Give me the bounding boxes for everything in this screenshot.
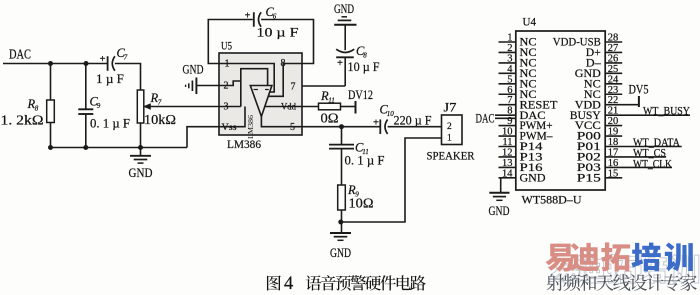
U4 pin 18 (P01) [577, 137, 682, 153]
svg-text:0. 1 µ F: 0. 1 µ F [90, 116, 130, 131]
svg-text:26: 26 [608, 53, 619, 64]
U4 pin 15 (P15) [577, 168, 622, 184]
U4 pin 2 (NC) [499, 43, 537, 59]
svg-text:20: 20 [608, 116, 619, 127]
svg-text:10 µ F: 10 µ F [348, 59, 380, 74]
capacitor C10 label [380, 103, 395, 119]
svg-text:+: + [337, 58, 343, 69]
svg-text:4: 4 [284, 274, 293, 294]
svg-text:7: 7 [507, 95, 512, 106]
svg-text:J7: J7 [444, 101, 457, 115]
U5 pin 5 number [290, 122, 295, 133]
svg-text:+: + [373, 118, 379, 129]
wire R9 bottom to J7 pin 1 [341, 138, 442, 222]
svg-text:GND: GND [489, 203, 510, 218]
svg-text:5: 5 [507, 74, 512, 85]
svg-text:GND: GND [334, 1, 354, 16]
U4 pin 27 (D+) [586, 43, 622, 59]
svg-text:U5: U5 [221, 39, 232, 53]
svg-text:1. 2kΩ: 1. 2kΩ [1, 113, 44, 128]
svg-text:GND: GND [330, 245, 351, 260]
U4 pin 17 (P02) [577, 147, 666, 163]
svg-text:1: 1 [507, 33, 512, 44]
net label WT_CS [633, 148, 666, 160]
resistor R11 body [319, 103, 341, 110]
wire DAC net horizontal segment (to C7 left plate) [3, 63, 108, 65]
junction dot R7 bottom / GND tap [138, 145, 143, 150]
svg-text:GND: GND [520, 172, 546, 184]
capacitor C8 (polarized, + bottom) [336, 49, 354, 69]
svg-text:7: 7 [124, 54, 128, 62]
U5 internal wire from pin 2 [219, 81, 241, 86]
svg-text:6: 6 [507, 85, 512, 96]
svg-text:7: 7 [291, 82, 296, 93]
svg-text:9: 9 [507, 116, 512, 127]
svg-text:1 µ F: 1 µ F [96, 71, 124, 86]
op-amp U5 internal triangle [250, 86, 272, 117]
svg-text:8: 8 [35, 105, 39, 113]
op-amp U5 vertical LM386 text [246, 115, 255, 139]
svg-text:0Ω: 0Ω [321, 111, 339, 126]
svg-text:18: 18 [608, 137, 619, 148]
junction dot at R8 top [48, 61, 53, 66]
capacitor C10 value 220 uF [394, 113, 432, 128]
U4 pin 24 (NC) [584, 74, 622, 90]
op-amp U5 box [219, 53, 302, 135]
U4 pin 21 (BUSY) [570, 106, 690, 122]
U5 internal Vdd wire [265, 106, 302, 108]
svg-text:15: 15 [608, 168, 619, 179]
U4 pin 23 (NC) [584, 85, 622, 101]
svg-text:DAC: DAC [476, 112, 495, 126]
power DV5 terminal [629, 83, 649, 108]
U4 pin 14 (GND) [499, 168, 546, 184]
U4 pin 26 (D–) [586, 53, 622, 69]
U5 pin 8 number [281, 58, 286, 69]
node DAC (at U4 pin 8) [476, 112, 516, 126]
U4 pin 19 (P00) [577, 127, 622, 143]
wire rail to U5 Vss [187, 127, 219, 148]
ground GND (below R9) [330, 222, 351, 260]
svg-text:22: 22 [608, 95, 619, 106]
U4 pin 22 (VDD) [575, 95, 639, 111]
wire C6 loop left side [208, 20, 253, 64]
U4 pin 10 (PWM–) [499, 127, 553, 143]
U5 internal output wire to pin 5 [261, 117, 302, 127]
svg-text:10 µ F: 10 µ F [257, 25, 299, 40]
caption 图4 语音预警硬件电路 [267, 274, 426, 294]
U5 pin 7 number [291, 82, 296, 93]
U5 internal wire from pin 8 [268, 64, 302, 97]
U4 pin 11 (P14) [499, 137, 543, 153]
svg-text:21: 21 [608, 106, 619, 117]
U5 internal feedback rect top [241, 69, 268, 107]
capacitor C11 value 0.1 uF [345, 153, 385, 168]
svg-text:SPEAKER: SPEAKER [427, 149, 475, 163]
svg-text:GND: GND [129, 165, 153, 180]
U5 pin 1 number [225, 59, 230, 70]
junction dot C9 bottom [83, 145, 88, 150]
op-amp U5 part label LM386 [227, 137, 261, 151]
U5 internal wire from Vss [219, 107, 245, 127]
svg-text:WT588D–U: WT588D–U [522, 193, 582, 207]
wire GND to C8 [344, 25, 346, 50]
op-amp U5 refdes label [221, 39, 232, 53]
capacitor C8 value 10 uF [348, 59, 380, 74]
resistor R11 value 0 ohm [321, 111, 339, 126]
ground GND at U5 pin 2 (rotated) [183, 62, 220, 95]
watermark 易迪拓培训 / 射频和天线设计专家 [545, 242, 698, 291]
resistor R8 value 1.2k ohm [1, 113, 44, 128]
svg-text:8: 8 [507, 106, 512, 117]
IC U4 refdes label [523, 15, 537, 29]
svg-text:4: 4 [507, 64, 513, 75]
svg-text:23: 23 [608, 85, 619, 96]
capacitor C11 label [355, 141, 369, 157]
connector J7 SPEAKER label [427, 149, 475, 163]
svg-text:DV5: DV5 [629, 83, 649, 97]
svg-text:2: 2 [507, 43, 512, 54]
resistor R9 body [338, 185, 346, 222]
ground GND (top, inverted) [334, 1, 357, 25]
resistor R9 label [347, 183, 359, 199]
net label WT_BUSY [643, 106, 691, 118]
U4 pin 25 (GND) [575, 64, 622, 80]
svg-text:24: 24 [608, 74, 619, 85]
U5 internal wire from pin 1 [219, 64, 274, 93]
capacitor C7 value 1 uF [96, 71, 124, 86]
power DV12 terminal [355, 101, 357, 114]
U4 pin 3 (NC) [499, 53, 537, 69]
svg-text:DV12: DV12 [348, 87, 373, 102]
U4 pin 7 (RESET) [499, 95, 558, 111]
capacitor C6 value 10 uF [257, 25, 299, 40]
U4 pin 13 (P16) [499, 158, 543, 174]
svg-text:220 µ F: 220 µ F [394, 113, 432, 128]
svg-text:11: 11 [328, 97, 334, 105]
U4 pin 4 (NC) [499, 64, 537, 80]
svg-text:9: 9 [97, 102, 101, 110]
wire C8 to U5 pin 7 [302, 57, 345, 86]
svg-text:+: + [100, 54, 106, 65]
potentiometer R7 label [150, 91, 162, 107]
U4 pin 5 (NC) [499, 74, 537, 90]
resistor R8 label [27, 97, 39, 113]
svg-text:Vdd: Vdd [281, 103, 296, 113]
connector J7 box [442, 115, 463, 145]
U4 pin 8 (DAC) [495, 106, 546, 122]
U5 pin 3 number [224, 102, 229, 113]
svg-text:25: 25 [608, 64, 619, 75]
svg-text:LM386: LM386 [246, 115, 255, 139]
power DV12 label [348, 87, 373, 102]
wire U5 pin 5 to C10 [302, 126, 380, 128]
svg-text:28: 28 [608, 33, 619, 44]
ground GND at U4 pin 14 [489, 178, 510, 218]
svg-text:WT_CLK: WT_CLK [633, 158, 673, 170]
U4 pin 6 (NC) [499, 85, 537, 101]
net label WT_CLK [633, 158, 673, 170]
potentiometer R7 wiper arrow and wire to U5 pin 3 [143, 103, 219, 109]
junction dot R9 bottom [338, 220, 343, 225]
resistor R11 label [320, 89, 335, 105]
svg-text:Vss: Vss [222, 123, 237, 133]
IC U4 part label WT588D-U [522, 193, 582, 207]
svg-text:27: 27 [608, 43, 619, 54]
connector J7 pin 2 number [447, 122, 452, 132]
wire C6 loop right side to pin 8 [261, 20, 313, 64]
svg-text:10: 10 [502, 127, 513, 138]
U4 pin 28 (VDD-USB) [553, 33, 622, 49]
U4 pin 9 (PWM+) [499, 116, 553, 132]
svg-text:3: 3 [507, 53, 512, 64]
svg-text:2: 2 [447, 122, 452, 132]
U4 pin 1 (NC) [499, 33, 537, 49]
U5 internal wire pin 3 [219, 106, 241, 108]
svg-text:7: 7 [158, 99, 162, 107]
resistor R9 value 10 ohm [349, 197, 374, 212]
U4 pin 16 (P03) [577, 158, 672, 174]
svg-text:GND: GND [183, 62, 204, 77]
wire C7 right to R7 top [115, 64, 141, 91]
capacitor C9 label [90, 95, 101, 111]
IC U4 box [516, 31, 605, 190]
junction dot R8 bottom [48, 145, 53, 150]
svg-text:13: 13 [502, 158, 513, 169]
U5 pin 2 number [224, 81, 229, 92]
wire C10 to J7 pin 2 [388, 126, 442, 128]
U5 pin Vss label [222, 123, 237, 133]
wire R11 to DV12 terminal [341, 106, 356, 108]
svg-text:10kΩ: 10kΩ [144, 113, 176, 128]
ground GND (bottom left) [129, 148, 153, 181]
svg-text:11: 11 [502, 137, 512, 148]
capacitor C7 plates (polarized, + left) [100, 54, 115, 71]
svg-text:14: 14 [502, 168, 513, 179]
net label WT_DATA [633, 137, 681, 149]
U4 pin 12 (P13) [499, 147, 543, 163]
svg-text:LM386: LM386 [227, 137, 261, 151]
wire analog ground rail [51, 147, 188, 149]
wire U5 Vdd to R11 [302, 106, 319, 108]
svg-text:12: 12 [502, 147, 513, 158]
svg-text:WT_BUSY: WT_BUSY [643, 106, 691, 118]
junction dot at C9 top [84, 61, 89, 66]
svg-text:DAC: DAC [9, 47, 31, 62]
connector J7 refdes [444, 101, 457, 115]
capacitor C8 label [356, 44, 367, 60]
U5 pin Vdd label [281, 103, 296, 113]
svg-text:16: 16 [608, 158, 619, 169]
U4 pin 20 (VCC) [575, 116, 622, 132]
op-amp U5 input polarity marks [254, 89, 269, 91]
capacitor C9 value 0.1 uF [90, 116, 130, 131]
resistor R8 [47, 64, 55, 148]
capacitor C6 plates (polarized, + left) [245, 11, 262, 27]
svg-text:U4: U4 [523, 15, 537, 29]
capacitor C10 plates (polarized, + left) [373, 118, 388, 134]
node DAC (audio input net label) [9, 47, 31, 62]
potentiometer R7 value 10k ohm [144, 113, 176, 128]
svg-text:P15: P15 [577, 172, 601, 184]
capacitor C7 label [117, 46, 128, 62]
svg-text:+: + [245, 11, 251, 22]
svg-text:19: 19 [608, 127, 619, 138]
svg-text:0. 1 µ F: 0. 1 µ F [345, 153, 385, 168]
junction dot C11 tap [339, 124, 344, 129]
potentiometer R7 body [137, 90, 144, 148]
capacitor C6 label [266, 5, 277, 21]
svg-text:17: 17 [608, 147, 619, 158]
capacitor C9 [78, 64, 93, 148]
connector J7 pin 1 number [447, 134, 452, 144]
svg-text:10Ω: 10Ω [349, 197, 374, 212]
capacitor C11 [329, 127, 354, 185]
svg-text:1: 1 [447, 134, 452, 144]
